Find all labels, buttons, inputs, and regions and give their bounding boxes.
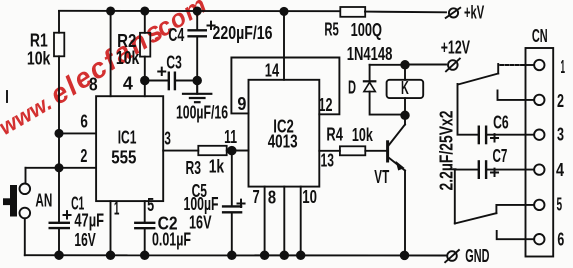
node dot rail pin7 (261, 252, 269, 260)
svg-text:AN: AN (35, 190, 52, 210)
capacitor C2 on pin 5 (135, 195, 191, 255)
svg-text:2: 2 (557, 91, 564, 111)
CN pin 5 circle (534, 200, 544, 210)
node dot C3/pin4 (141, 77, 149, 85)
resistor R4 (326, 124, 386, 155)
wire R1 down to C1 (58, 56, 60, 222)
svg-text:6: 6 (80, 111, 88, 131)
node dot rail pin8 (281, 252, 289, 260)
CN pin 2 circle (534, 95, 544, 105)
wire pin 1 (110, 201, 112, 255)
transistor VT (374, 116, 405, 255)
svg-text:100µF: 100µF (184, 194, 219, 214)
svg-text:R3: R3 (186, 158, 202, 178)
svg-text:4: 4 (123, 74, 133, 94)
svg-text:10k: 10k (116, 48, 140, 68)
wire to +12V (370, 64, 405, 66)
node dot rail/C4 (194, 7, 201, 14)
svg-text:CN: CN (532, 26, 548, 46)
svg-text:555: 555 (111, 148, 136, 168)
svg-text:100Q: 100Q (351, 20, 382, 40)
wire pin 3 (163, 150, 198, 152)
wire top rail right of R5 (365, 11, 446, 14)
capacitor C6 (479, 112, 534, 148)
wire pin 2 (26, 167, 97, 169)
capacitor C5 (184, 151, 247, 256)
CN pin 1 circle (534, 60, 544, 70)
svg-text:D: D (348, 78, 356, 98)
resistor R5 (324, 7, 382, 40)
svg-text:C7: C7 (493, 146, 508, 166)
pushbutton AN (3, 168, 52, 255)
svg-text:1N4148: 1N4148 (347, 44, 393, 64)
switch contact A: wire pin1 and blade (458, 64, 534, 85)
svg-text:3: 3 (557, 125, 564, 145)
watermark (0, 0, 212, 140)
CN pin 6 circle (534, 234, 544, 244)
wire pin 8 of IC2 (283, 187, 285, 256)
svg-text:R5: R5 (324, 19, 338, 39)
wire top rail left (59, 10, 340, 12)
wire pin 13 (319, 150, 340, 152)
node dot rail/pin8 (107, 7, 114, 14)
svg-text:1: 1 (561, 57, 566, 77)
svg-text:1: 1 (114, 199, 120, 219)
stray mark left edge (6, 91, 8, 102)
svg-text:220µF/16: 220µF/16 (213, 23, 273, 43)
node dot pin6 (55, 130, 62, 137)
terminal +12V (441, 38, 470, 72)
node dot C3/C4 (193, 77, 201, 85)
IC2 4013 (249, 80, 320, 187)
svg-text:7: 7 (253, 187, 260, 207)
capacitor C1 (50, 194, 104, 256)
node dot pin2 (55, 164, 62, 171)
svg-text:C4: C4 (168, 25, 184, 45)
svg-text:8: 8 (89, 75, 98, 95)
switch contact B: blade and wire pin5 (455, 205, 534, 224)
resistor R3 (186, 146, 249, 178)
wire bus A to C6 (458, 84, 479, 135)
svg-text:GND: GND (465, 246, 489, 266)
svg-text:R4: R4 (326, 124, 343, 144)
diode D 1N4148 (347, 44, 405, 115)
capacitor C7 (455, 146, 534, 183)
node dot diode top (401, 61, 409, 69)
svg-text:C6: C6 (493, 112, 509, 132)
svg-text:10: 10 (302, 187, 317, 207)
svg-text:14: 14 (265, 61, 279, 81)
node dot rail emitter (401, 252, 409, 260)
svg-text:+12V: +12V (441, 38, 470, 58)
svg-text:11: 11 (224, 127, 237, 147)
CN pin 4 circle (534, 164, 544, 174)
node dot rail C5 (228, 252, 236, 260)
wire pin 10 (300, 187, 302, 256)
svg-text:12: 12 (319, 95, 333, 115)
node dot rail C1 (55, 251, 63, 259)
wire bus C7 to blade B (454, 170, 456, 224)
svg-text:4: 4 (556, 160, 564, 180)
IC1 555 timer (96, 96, 163, 201)
CN pin 3 circle (534, 130, 544, 140)
svg-text:www.: www. (0, 90, 56, 140)
svg-text:9: 9 (237, 94, 246, 114)
relay K (387, 65, 424, 115)
svg-text:13: 13 (321, 150, 334, 170)
svg-text:K: K (401, 78, 409, 98)
svg-text:6: 6 (557, 230, 564, 250)
resistor R1 (27, 11, 64, 69)
svg-text:2.2µF/25Vx2: 2.2µF/25Vx2 (437, 111, 457, 191)
svg-text:0.01µF: 0.01µF (152, 229, 191, 249)
wire pin6 with stub (497, 231, 534, 239)
svg-text:100µF/16: 100µF/16 (176, 102, 228, 122)
ground (183, 81, 211, 103)
svg-text:2: 2 (80, 146, 87, 166)
wire pin 6 (59, 132, 96, 134)
svg-text:C3: C3 (166, 52, 181, 72)
svg-text:16V: 16V (189, 213, 212, 233)
svg-text:5: 5 (147, 195, 154, 215)
node dot rail pin1 (107, 252, 115, 260)
wire pin 7 (264, 187, 266, 256)
wire pin 11 (232, 150, 249, 152)
node dot pin3/C5 (228, 147, 236, 155)
svg-text:+: + (236, 194, 247, 214)
svg-text:8: 8 (268, 188, 276, 208)
svg-text:4013: 4013 (268, 132, 298, 152)
wire pin2 with stub (498, 91, 535, 100)
wire pin9-pin12 loop (231, 58, 339, 115)
wire pin 14 (283, 11, 285, 79)
wire bottom rail (25, 254, 446, 256)
node dot rail/R2 (141, 7, 148, 14)
resistor R2 (116, 11, 150, 96)
node dot diode bottom (401, 112, 409, 120)
terminal +kV (446, 2, 485, 22)
connector CN box (526, 26, 554, 256)
node dot rail/pin14 (280, 8, 287, 15)
svg-text:3: 3 (164, 128, 171, 148)
svg-text:16V: 16V (74, 230, 95, 250)
svg-text:VT: VT (374, 167, 389, 187)
wire pin 8 (110, 11, 112, 96)
svg-text:10k: 10k (352, 125, 374, 145)
svg-text:47µF: 47µF (74, 211, 104, 231)
node dot rail pin10 (297, 252, 305, 260)
svg-text:+kV: +kV (464, 2, 484, 22)
capacitor C3 (145, 52, 228, 122)
terminal GND (445, 246, 489, 266)
node dot rail pin5 (141, 252, 149, 260)
svg-text:IC1: IC1 (118, 127, 137, 147)
svg-text:1k: 1k (209, 157, 225, 177)
svg-text:5: 5 (557, 195, 563, 215)
svg-text:10k: 10k (27, 49, 51, 69)
capacitor C4 (168, 11, 272, 94)
